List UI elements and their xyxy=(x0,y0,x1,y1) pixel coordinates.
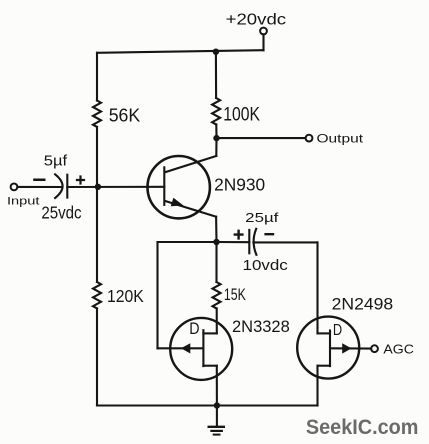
svg-text:Output: Output xyxy=(317,131,364,145)
wire left rail upper xyxy=(96,53,98,101)
wire base xyxy=(67,186,164,188)
wire collector diagonal xyxy=(165,156,216,172)
wire emitter drop xyxy=(215,217,217,242)
wire left rail lower xyxy=(96,308,98,405)
wire bottom rail xyxy=(97,404,318,406)
label plus C2 xyxy=(234,230,244,240)
terminal Input xyxy=(11,184,18,191)
transistor Q 2N930 circle xyxy=(148,156,210,218)
capacitor C 5uf curved plate xyxy=(55,174,63,198)
svg-text:D: D xyxy=(189,319,199,338)
terminal Output xyxy=(306,135,313,142)
wire gate feed drop xyxy=(156,242,158,348)
transistor Q 2N2498 drain step xyxy=(318,332,331,334)
transistor Q 2N930 emitter arrow xyxy=(171,198,184,207)
transistor Q 2N3328 channel bar xyxy=(202,330,204,366)
transistor Q 2N2498 source step xyxy=(318,365,331,367)
wire 2N2498 drain drop xyxy=(316,242,318,333)
label minus C1 xyxy=(33,179,45,182)
wire 25uf to 2N2498 drain xyxy=(253,241,317,243)
ground xyxy=(208,406,226,435)
wire +20vdc drop xyxy=(262,34,264,50)
node collector junction xyxy=(213,135,219,141)
label plus C1 xyxy=(76,175,85,184)
resistor R 56K xyxy=(93,101,101,127)
svg-text:25vdc: 25vdc xyxy=(41,203,81,223)
capacitor C 5uf straight plate xyxy=(66,175,68,198)
capacitor C 25uf curved plate xyxy=(254,229,257,255)
wire input to capacitor xyxy=(17,186,62,188)
node emitter junction xyxy=(213,239,219,245)
capacitor C 25uf straight plate xyxy=(248,230,250,253)
transistor Q 2N3328 source step xyxy=(203,365,216,367)
node top rail junction xyxy=(213,49,219,55)
svg-text:SeekIC.com: SeekIC.com xyxy=(306,415,419,439)
wire 100K top branch xyxy=(215,52,217,98)
wire top rail xyxy=(97,50,264,53)
wire 100K to collector node xyxy=(215,124,217,138)
svg-text:100K: 100K xyxy=(223,104,260,125)
resistor R 15K xyxy=(213,282,221,308)
transistor Q 2N930 base bar xyxy=(163,167,165,205)
svg-text:10vdc: 10vdc xyxy=(243,257,289,274)
wire junction to gate feed xyxy=(158,241,217,243)
label minus C2 xyxy=(264,233,274,235)
svg-text:Input: Input xyxy=(7,195,41,207)
wire gate feed into 2N3328 xyxy=(158,347,202,349)
svg-text:+20vdc: +20vdc xyxy=(226,12,287,29)
transistor Q 2N3328 drain step xyxy=(203,332,216,334)
wire 15K branch xyxy=(215,242,217,282)
svg-text:2N930: 2N930 xyxy=(214,174,265,194)
resistor R 100K xyxy=(212,98,220,124)
node base junction xyxy=(95,184,101,190)
terminal +20vdc xyxy=(260,28,267,35)
wire collector drop xyxy=(215,138,217,156)
node ground junction xyxy=(214,402,220,408)
transistor Q 2N3328 gate arrow xyxy=(181,343,190,353)
wire 2N2498 source drop xyxy=(316,366,318,406)
transistor Q 2N2498 circle xyxy=(297,317,359,379)
svg-text:2N2498: 2N2498 xyxy=(332,295,394,314)
svg-text:AGC: AGC xyxy=(383,342,414,357)
svg-text:120K: 120K xyxy=(107,286,144,306)
transistor Q 2N2498 gate arrow xyxy=(342,343,351,353)
transistor Q 2N3328 circle xyxy=(170,318,232,380)
svg-text:5µf: 5µf xyxy=(44,153,68,170)
terminal AGC xyxy=(371,345,378,352)
wire output xyxy=(217,137,306,139)
svg-text:56K: 56K xyxy=(109,104,141,125)
svg-text:2N3328: 2N3328 xyxy=(232,317,290,336)
wire left rail mid xyxy=(96,127,98,282)
wire 2N2498 gate to AGC xyxy=(330,347,371,349)
svg-text:D: D xyxy=(333,322,342,339)
wire 2N3328 source drop xyxy=(216,366,218,406)
wire 15K to 2N3328 drain xyxy=(216,308,218,333)
svg-text:25µf: 25µf xyxy=(245,210,279,225)
resistor R 120K xyxy=(93,282,101,308)
wire emitter diagonal xyxy=(165,201,216,217)
wire junction to 25uf xyxy=(217,241,250,243)
svg-text:15K: 15K xyxy=(224,285,246,304)
transistor Q 2N2498 channel bar xyxy=(329,331,331,367)
